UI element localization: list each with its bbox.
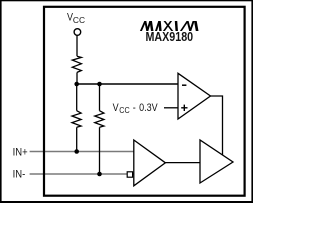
svg-text:CC: CC	[73, 15, 85, 25]
svg-text:V: V	[113, 103, 119, 115]
svg-text:MAX9180: MAX9180	[145, 30, 193, 44]
svg-text:CC: CC	[119, 106, 130, 115]
svg-text:IN-: IN-	[13, 169, 26, 181]
svg-text:-: -	[133, 103, 136, 115]
svg-text:0.3V: 0.3V	[139, 103, 158, 115]
svg-text:IN+: IN+	[13, 147, 28, 159]
